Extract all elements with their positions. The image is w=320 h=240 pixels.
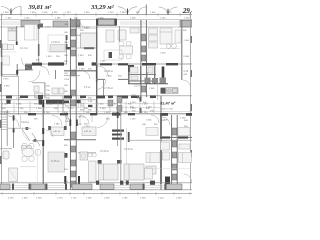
door jamb tick left: [20, 6, 22, 14]
svg-text:1 300: 1 300: [36, 108, 42, 110]
closet shelves unit4: [149, 28, 158, 48]
shaft2 between unit3 and unit4: left line: [140, 20, 142, 97]
door arc hallway up: [22, 58, 34, 70]
shaft hatched wall top: [70, 20, 80, 27]
fridge: [9, 168, 18, 182]
door arc unit3: [97, 80, 106, 90]
small wall x55: [55, 70, 57, 79]
unit3 wall y79: [96, 78, 105, 80]
desk unit4: [175, 30, 181, 43]
dark jamb x128: [128, 132, 130, 142]
svg-text:1 100: 1 100: [158, 198, 164, 200]
svg-text:1 150: 1 150: [108, 12, 114, 14]
left wall vertical y64-80: [16, 64, 18, 76]
svg-text:Тамбур: Тамбур: [21, 121, 30, 124]
svg-text:2 000: 2 000: [42, 12, 48, 14]
svg-text:15,33 м²: 15,33 м²: [124, 148, 133, 151]
svg-text:1 480: 1 480: [176, 198, 182, 200]
door arc hallway down: [29, 71, 41, 83]
svg-text:2 060: 2 060: [149, 88, 155, 90]
bottom wall gray blocks: [0, 184, 182, 189]
svg-text:1 250: 1 250: [122, 97, 128, 99]
cabinet edge line unit3: [119, 26, 121, 42]
svg-text:2 400: 2 400: [166, 12, 172, 14]
door arc right-mid 2: [151, 115, 159, 123]
wall tick after block: [40, 24, 43, 28]
dark wall segment x38: [38, 24, 40, 29]
door leaves meeting tick right: [167, 9, 169, 15]
svg-text:1 250: 1 250: [78, 97, 84, 99]
toilet bottom left: [0, 148, 12, 150]
shaft hatch boxes: [71, 29, 76, 187]
svg-text:1250: 1250: [64, 79, 70, 81]
svg-text:1 280: 1 280: [65, 12, 71, 14]
svg-text:1 500: 1 500: [160, 52, 166, 54]
svg-text:1 340: 1 340: [184, 40, 190, 42]
ventilation shaft column left line: [69, 18, 71, 190]
door arc right-mid bottom strip: [162, 117, 170, 125]
svg-text:2 530: 2 530: [84, 12, 90, 14]
svg-text:16,98 м²: 16,98 м²: [104, 70, 113, 73]
svg-text:2 700 / 2 750: 2 700 / 2 750: [160, 108, 174, 110]
wall y137 right: [160, 136, 192, 138]
corridor walls around shaft: [64, 70, 96, 72]
dark seg left wall: [1, 44, 3, 57]
wall y153: [78, 152, 96, 154]
svg-text:2 530: 2 530: [84, 27, 90, 29]
furniture right bottom: [145, 142, 192, 179]
door leaves meeting tick middle: [127, 9, 129, 15]
svg-text:2 530: 2 530: [78, 55, 84, 57]
right edge dim marks: [191, 36, 192, 157]
dim column left of shaft: [64, 24, 70, 93]
kitchen unit3: tall cabinet: [106, 30, 114, 42]
door arc below shaft: [80, 116, 89, 125]
svg-text:1 030: 1 030: [30, 12, 36, 14]
wall pair x117 bottom strip: [117, 100, 119, 146]
svg-text:2 080: 2 080: [16, 104, 22, 106]
svg-text:2 035: 2 035: [104, 198, 110, 200]
extra dark marks mid band: [6, 99, 92, 107]
wall x120 bottom: [120, 100, 122, 184]
washing machine: [80, 152, 88, 160]
shaft2 hatch boxes: [141, 34, 146, 92]
partition x157 below kitchen: [157, 84, 159, 100]
dark block near shaft bottom right: [165, 177, 170, 185]
svg-text:82,47 м²: 82,47 м²: [160, 100, 176, 105]
kitchen right unit dark appliance row: [145, 78, 167, 84]
staircase bottom left: [1, 112, 8, 130]
svg-text:3,15 м²: 3,15 м²: [134, 85, 142, 88]
svg-text:2 080: 2 080: [184, 56, 190, 58]
svg-text:39,81 м²: 39,81 м²: [28, 4, 53, 11]
dark ticks shaft sides: [69, 120, 71, 127]
dimension ticks on top line: [2, 13, 190, 17]
svg-text:0,97 м²: 0,97 м²: [53, 130, 60, 133]
kitchen right unit counter 2: [161, 88, 178, 94]
line under wall unit2: [78, 28, 96, 30]
door arc bath: [40, 66, 49, 75]
balcony double-door swing arcs left: [1, 7, 21, 15]
svg-text:1 250: 1 250: [130, 118, 136, 120]
major horizontal wall y64: [25, 63, 67, 65]
chairs unit3: [119, 41, 131, 58]
balcony double-door swing arcs middle: [118, 7, 137, 14]
light line across right bottom: [144, 168, 190, 170]
balcony double-door swing arcs right: [159, 7, 178, 14]
interior dim line vertical: [36, 150, 38, 183]
interior wall vertical x38: [38, 24, 40, 64]
svg-text:1 380: 1 380: [55, 17, 61, 19]
diagonal door leaf: [22, 129, 30, 141]
closet block text: [112, 130, 124, 140]
dimension text row above top wall: [3, 12, 188, 14]
svg-text:1 240: 1 240: [18, 108, 24, 110]
svg-text:2 060: 2 060: [100, 108, 106, 110]
table unit2: [81, 33, 98, 48]
door jamb tick middle: [145, 5, 147, 15]
wall x140 from top: [140, 20, 142, 33]
dark segments y114: [28, 113, 192, 116]
svg-text:2 000: 2 000: [45, 26, 51, 28]
door blob: [25, 65, 32, 71]
svg-text:2 080: 2 080: [54, 124, 60, 126]
closet left unit: [25, 25, 38, 41]
door arc: [46, 130, 53, 137]
small arc mid band right: [132, 94, 140, 101]
svg-text:1 030: 1 030: [52, 12, 58, 14]
svg-text:33,29 м²: 33,29 м²: [90, 4, 115, 11]
dark ticks at shaft bottom: [64, 176, 66, 184]
svg-text:1 250: 1 250: [68, 108, 74, 110]
svg-text:1 850: 1 850: [3, 12, 9, 14]
wardrobe right of shaft: [82, 127, 96, 136]
twin sinks bottom left: [22, 146, 27, 151]
svg-text:1 150: 1 150: [160, 17, 166, 19]
fixtures right bath: [130, 67, 153, 80]
svg-text:1 150: 1 150: [24, 17, 30, 19]
svg-text:2 080: 2 080: [79, 68, 85, 70]
door arc corridor: [82, 71, 90, 79]
hallway wall left y70: [17, 69, 33, 71]
door arc corridor to room: [98, 66, 108, 76]
unit3 inner vertical: [103, 79, 105, 96]
svg-text:1 060: 1 060: [146, 120, 152, 122]
dark caps wall x66: [66, 35, 68, 40]
dark blob wall x181: [162, 67, 165, 80]
door arc bottom unit3: [97, 117, 108, 128]
balcony door arc unit2: [80, 20, 89, 29]
svg-text:2 060: 2 060: [98, 104, 104, 106]
wall block right: [180, 20, 192, 27]
middle dimension text band: [2, 104, 150, 114]
svg-text:1 250: 1 250: [146, 106, 152, 108]
stair wall: [6, 110, 8, 146]
middle dimension chain lines: [0, 103, 192, 111]
svg-text:14,95 м²: 14,95 м²: [51, 41, 60, 44]
dark segment dividing wall: [96, 64, 98, 82]
stove dark block unit3: [109, 52, 112, 58]
top wall of bottom strip y114: [0, 113, 192, 115]
dark corner blobs wardrobes: [48, 126, 51, 130]
svg-text:4 850: 4 850: [4, 86, 10, 88]
door jamb blobs on corridor wall: [78, 62, 84, 65]
bathroom walls left of shaft: [44, 83, 46, 99]
bed bottom middle left: [99, 164, 119, 180]
dark wall segments on y64: [32, 62, 178, 67]
single door swing arc middle-right: [138, 7, 146, 14]
dresser left unit: [3, 44, 14, 50]
pillow lines beds bottom right: [149, 153, 151, 163]
svg-text:6,48: 6,48: [184, 70, 189, 73]
shaft 2 bottom right: [171, 115, 173, 190]
dims near shaft bottom: [64, 145, 68, 183]
kitchen counter line bottom-left: [20, 166, 36, 168]
kitchen counter line: [128, 83, 168, 85]
svg-text:1 380: 1 380: [130, 17, 136, 19]
bottom dimension ticks: [2, 192, 190, 195]
svg-text:1 100: 1 100: [57, 198, 63, 200]
left room bottom wall y75: [2, 75, 18, 77]
wall x63 mid band: [62, 96, 64, 114]
right unit inner wall x181: [181, 20, 183, 80]
dimension text row below top line: [6, 17, 190, 19]
svg-text:1 980: 1 980: [120, 12, 126, 14]
svg-text:1 340: 1 340: [182, 12, 188, 14]
nightstand right unit bottom 2: [178, 128, 190, 136]
small cabinets unit3: [130, 28, 139, 33]
door leaves meeting tick left: [10, 9, 12, 15]
kitchen counter outline unit3: [104, 50, 122, 60]
svg-text:1 550: 1 550: [46, 56, 52, 58]
svg-text:15,33 м²: 15,33 м²: [100, 150, 109, 153]
svg-text:1 400: 1 400: [140, 198, 146, 200]
dark blobs bed corners: [98, 160, 102, 164]
bottom dimension chain line: [0, 193, 192, 195]
living room outline unit1: [48, 35, 66, 52]
svg-text:1 250: 1 250: [16, 97, 22, 99]
sink circles unit4: [166, 44, 171, 49]
mini shaft hatch boxes mid band right of center: [108, 97, 122, 112]
svg-text:1 180: 1 180: [122, 198, 128, 200]
window sill double line left: [2, 21, 21, 23]
thin wall x20 below stairs: [20, 115, 22, 128]
wall x43 bottom strip: [42, 100, 44, 186]
balcony slab unit2: [97, 19, 117, 25]
dark block left of cabinet: [65, 153, 68, 158]
top exterior wall upper line: [0, 19, 192, 21]
ventilation shaft column right line: [75, 18, 77, 190]
bottom window double lines in gaps: [10, 186, 166, 188]
svg-text:5,5 м²: 5,5 м²: [84, 86, 91, 89]
dense tiny text texture around shaft mid band: [16, 97, 154, 126]
balcony edge line top: [0, 14, 192, 16]
wall x66: [66, 35, 68, 64]
corridor wall y140: [64, 139, 96, 141]
left exterior wall: [1, 15, 3, 190]
right unit bathroom block walls: [128, 66, 155, 84]
vertical dim marks along left edge: [0, 40, 2, 164]
dark tick: [16, 70, 18, 75]
sink circles: [163, 89, 166, 92]
svg-text:1 180: 1 180: [86, 198, 92, 200]
desk against left wall: [3, 56, 10, 65]
svg-text:ПР 0,9: ПР 0,9: [78, 117, 85, 119]
svg-text:4 190: 4 190: [8, 198, 14, 200]
svg-text:1 300: 1 300: [47, 104, 53, 106]
dims column near bathroom: [46, 85, 50, 96]
tick marks x139 mid band: [140, 97, 142, 102]
dark segments mid band: [6, 95, 156, 104]
top exterior wall lower line: [0, 26, 192, 28]
wall tick dark: [16, 42, 18, 46]
dim text row under rooms: [46, 55, 92, 58]
svg-text:1 600: 1 600: [150, 12, 156, 14]
wardrobe bottom mid: [51, 127, 64, 136]
tall cabinet: [89, 161, 97, 182]
door arc mid-left bottom strip: [52, 116, 62, 126]
dining chairs bottom-left unit: [22, 144, 41, 162]
sofa living unit1: [50, 45, 65, 52]
svg-text:1 250: 1 250: [130, 102, 136, 104]
bottom wall dark ticks: [12, 184, 166, 190]
svg-text:14,95 м²: 14,95 м²: [51, 160, 60, 163]
svg-text:1 060: 1 060: [180, 118, 186, 120]
bed bottom middle right: [124, 164, 156, 180]
texts mid band right half: [130, 102, 154, 112]
wall seg above bath right: [142, 63, 156, 66]
nightstand right unit bottom: [146, 128, 158, 136]
shaft2 right line: [145, 20, 147, 97]
faint room line: [0, 51, 16, 53]
svg-text:1 040: 1 040: [2, 104, 8, 106]
unit2/unit3 dividing wall: [96, 25, 98, 115]
svg-text:1 400: 1 400: [36, 198, 42, 200]
dark segs wall y48: [66, 47, 71, 49]
window thin line middle: [120, 21, 146, 23]
bottom strip wall x13: [13, 115, 15, 148]
dark seg left wall lower: [1, 62, 3, 76]
dim texts below y114 wall: [34, 118, 188, 128]
wall y140 right half: [128, 139, 192, 141]
svg-text:1 040: 1 040: [106, 76, 112, 78]
bed left unit: [8, 28, 16, 41]
kitchen unit3: cabinet 2: [118, 30, 126, 40]
dark piers bottom: [96, 181, 155, 185]
svg-text:0,97 м²: 0,97 м²: [84, 130, 91, 133]
door arc right kitchen: [183, 80, 191, 88]
dining table ellipse bottom-left: [22, 148, 34, 156]
wall block solid 2: [53, 21, 68, 27]
bottom exterior wall outer line: [0, 189, 192, 191]
wall y48 above shaft: [66, 47, 96, 49]
svg-text:12,4 м²: 12,4 м²: [20, 47, 28, 50]
svg-text:1 340: 1 340: [184, 17, 190, 19]
stove dark block kitchen right: [161, 88, 166, 94]
door arc bottom right: [184, 174, 192, 183]
wall block solid: [21, 20, 40, 27]
twin sink circles: [88, 153, 92, 157]
middle dimension ticks: [2, 101, 154, 113]
bathroom fixtures: [34, 86, 64, 97]
bottom dimension labels: [8, 198, 182, 200]
svg-text:1 150: 1 150: [71, 198, 77, 200]
svg-text:1 060: 1 060: [22, 198, 28, 200]
right exterior wall: [190, 15, 192, 190]
wall y141 left: [32, 140, 43, 142]
extra vertical ticks mid band: [66, 114, 92, 126]
bedroom wall vertical left: [16, 26, 18, 45]
bottom exterior wall inner line: [0, 182, 192, 184]
svg-text:1 250: 1 250: [78, 104, 84, 106]
right wall dim texts: [184, 40, 190, 76]
svg-text:17,35 м²: 17,35 м²: [104, 87, 113, 90]
dining table unit3: [120, 46, 133, 54]
entry door arc bottom left: [8, 116, 19, 127]
window thin line right: [148, 21, 180, 23]
svg-text:1 850: 1 850: [6, 17, 12, 19]
left lower wall vertical: [18, 76, 20, 115]
unit divider wall x161 bottom: [160, 96, 162, 190]
window dim texts below top wall: [45, 26, 187, 32]
room outline bottom mid w/label: [48, 152, 65, 172]
bottom wall of top strip y96-100: [0, 95, 192, 97]
svg-text:1 040: 1 040: [100, 61, 106, 63]
bed unit4: [160, 28, 172, 44]
svg-text:1 970: 1 970: [3, 78, 9, 80]
bath top wall line: [8, 127, 31, 129]
